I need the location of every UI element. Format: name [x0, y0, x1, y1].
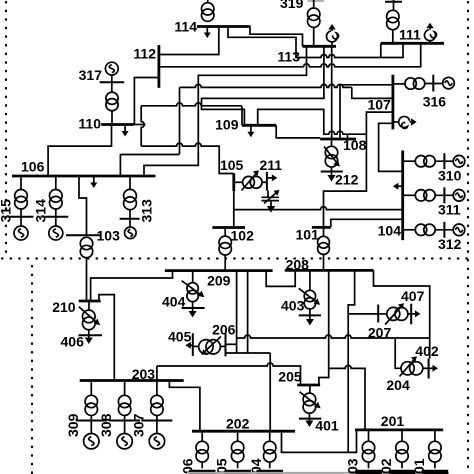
wire 209 drop V1 — [236, 270, 238, 353]
unit 302: transformer — [396, 430, 408, 468]
wire stub into bus 108 — [347, 134, 349, 139]
svg-text:315: 315 — [0, 199, 14, 223]
wire 109-108 — [276, 125, 320, 138]
svg-text:209: 209 — [207, 273, 231, 289]
svg-text:307: 307 — [130, 413, 146, 437]
bus 208 — [285, 269, 374, 272]
svg-text:319: 319 — [280, 0, 304, 11]
generator 317 — [105, 62, 118, 75]
svg-text:06: 06 — [180, 458, 196, 474]
svg-text:02: 02 — [378, 458, 394, 474]
bus tick 313 — [120, 218, 140, 220]
wire L3 (105 feeder, y87.4) — [180, 84, 352, 87]
bus tick 405 — [192, 333, 194, 356]
wire branch y106.3 to 109 — [141, 103, 242, 106]
generator 311 — [435, 190, 465, 202]
wire 109-108 second circuit — [258, 109, 367, 134]
tap arrow 204 — [400, 356, 417, 376]
wire 208-201 long with jog — [348, 270, 354, 452]
svg-text:317: 317 — [79, 67, 103, 83]
generator 307 — [149, 421, 164, 449]
tap arrow 212 — [324, 147, 340, 167]
unit 307: transformer — [151, 381, 163, 421]
svg-text:111: 111 — [399, 27, 421, 43]
wire L3 vertical to y146.3 — [179, 87, 181, 154]
generator 309 — [84, 421, 99, 449]
bus 209 — [165, 269, 273, 272]
wire 112-111 (long, with hops) — [159, 43, 421, 67]
bus tick 402 — [428, 359, 430, 379]
bus tick + load arrow 404 — [182, 302, 205, 318]
wire 206 horizontal y353 — [226, 352, 271, 354]
wire 113-106 via L2 — [144, 46, 307, 176]
wire 109 left end up — [241, 106, 243, 125]
svg-text:05: 05 — [213, 458, 229, 474]
unit 309: transformer — [85, 381, 97, 421]
svg-text:310: 310 — [438, 168, 462, 184]
flow arrow 407 — [411, 310, 420, 317]
bus bar 303 — [355, 470, 382, 474]
unit 310: transformer — [403, 156, 435, 167]
transformer 316 — [393, 78, 425, 89]
wire 114-113 circuit a — [250, 27, 303, 47]
wire y366 (203/205 link) with hop — [157, 363, 301, 385]
tap arrow 206 (head lower-left) — [201, 337, 221, 355]
transformer 207/407 — [378, 307, 411, 320]
svg-text:407: 407 — [401, 288, 425, 304]
bus tick 211 — [266, 172, 268, 191]
svg-text:404: 404 — [162, 294, 186, 310]
synchronous condenser at 113 — [326, 24, 338, 42]
wire 208-205 — [319, 270, 329, 385]
tap arrow 207 — [385, 303, 404, 324]
bus tick 315 — [9, 216, 34, 218]
svg-text:210: 210 — [52, 299, 76, 315]
unit 315: transformer — [15, 177, 28, 217]
svg-text:113: 113 — [277, 49, 300, 65]
dotted border left — [5, 2, 7, 258]
bus 102 — [212, 226, 245, 229]
wire 110-112 — [134, 78, 159, 125]
svg-text:206: 206 — [212, 322, 236, 338]
bus 114 — [197, 25, 251, 28]
wire y338 (206 to 402 area) with hops — [237, 335, 430, 338]
wire 105-102 vertical — [233, 191, 235, 228]
wire 205-201 — [329, 365, 365, 429]
svg-text:204: 204 — [386, 377, 410, 393]
svg-text:211: 211 — [260, 157, 283, 173]
unit 308: transformer — [118, 381, 130, 421]
wire 209 drop V2 — [247, 270, 249, 353]
svg-text:406: 406 — [61, 334, 85, 350]
bus tick + load arrow 401 — [299, 413, 321, 427]
svg-text:101: 101 — [296, 227, 320, 243]
svg-text:208: 208 — [286, 257, 310, 273]
load arrow bus 106 — [90, 177, 97, 188]
bus 201 — [355, 428, 443, 431]
svg-text:103: 103 — [97, 228, 121, 244]
svg-text:313: 313 — [139, 199, 155, 223]
bus 105 — [232, 173, 235, 191]
transformer 404 — [187, 270, 198, 301]
wire 206 up to y338 — [226, 343, 237, 345]
unit 311: transformer — [403, 190, 435, 201]
svg-text:107: 107 — [367, 97, 391, 113]
svg-text:114: 114 — [174, 19, 197, 35]
bus bar 306 — [189, 470, 216, 474]
svg-text:402: 402 — [415, 343, 439, 359]
transformer 319 with cut tick (grey, image edge) — [308, 0, 325, 46]
bus tick + load arrow 406 — [79, 330, 103, 344]
generator 315 — [14, 217, 28, 240]
variable capacitor at 211 — [262, 190, 280, 204]
transformer 211 (105 side) — [234, 176, 267, 188]
svg-text:108: 108 — [343, 137, 367, 153]
svg-text:316: 316 — [423, 94, 447, 110]
wire 210-203 — [99, 295, 114, 381]
bus tick + load arrow 212 — [321, 167, 343, 181]
svg-text:104: 104 — [378, 223, 402, 239]
unit 313: transformer — [124, 177, 137, 219]
generator 313 — [125, 219, 137, 239]
transformer 406 — [83, 301, 96, 330]
bus 106 — [12, 175, 156, 178]
dotted border horizontal separator — [2, 257, 472, 259]
load arrow bus 110 — [122, 126, 129, 137]
bus tick 407 — [410, 304, 412, 325]
svg-text:205: 205 — [278, 369, 302, 385]
tap arrow 404 — [182, 281, 205, 298]
svg-text:405: 405 — [168, 329, 192, 345]
wire 113-109 zigzag — [202, 46, 324, 124]
generator 308 — [117, 421, 132, 449]
svg-text:311: 311 — [438, 202, 461, 218]
bus 108 — [320, 138, 356, 141]
generator 314 — [49, 217, 63, 240]
transformer T111 with cut tick — [385, 0, 402, 43]
svg-text:109: 109 — [215, 117, 239, 133]
dotted border bottom-left vertical — [31, 266, 33, 473]
generator 316 — [425, 77, 455, 89]
svg-text:403: 403 — [281, 298, 305, 314]
bus tick 206 — [225, 333, 227, 356]
tap arrow 401 — [300, 392, 321, 409]
wire y154.9 — [120, 154, 179, 156]
load arrow bus 104 (left) — [393, 183, 403, 190]
bus 113 — [303, 45, 337, 48]
unit 314: transformer — [50, 177, 63, 217]
svg-text:401: 401 — [315, 418, 339, 434]
generator 312 — [435, 224, 465, 236]
svg-text:01: 01 — [411, 458, 427, 474]
bus bar 302 — [389, 470, 416, 474]
svg-text:105: 105 — [220, 157, 244, 173]
unit 305: transformer — [231, 431, 243, 468]
transformer 204/402 — [401, 362, 429, 375]
bus bar 301 — [422, 470, 449, 474]
transformer 102 — [219, 228, 231, 271]
bus bar 305 — [224, 470, 251, 474]
bus 210 — [79, 300, 101, 303]
bus tick 309 — [76, 420, 107, 422]
load arrow bus 114 — [204, 27, 211, 38]
wire 114-113 circuit b — [228, 27, 296, 47]
wire 105-107 (L3 extension) — [352, 87, 393, 98]
bus 111 — [381, 42, 444, 45]
bus tick + load arrow 403 — [299, 309, 321, 326]
bus tick 308 — [109, 420, 140, 422]
svg-text:212: 212 — [335, 172, 359, 188]
svg-text:312: 312 — [438, 236, 462, 252]
transformer 103 — [80, 237, 92, 301]
synchronous condenser at 111 — [424, 23, 436, 41]
wire 209-210 — [91, 271, 173, 301]
synchronous condenser at 107 — [399, 116, 417, 128]
wire 114-112 — [159, 27, 219, 55]
bus 112 — [157, 45, 160, 88]
grey cut line at bottom edge — [187, 472, 449, 474]
wire 106-103 — [79, 176, 87, 235]
unit 306: transformer — [196, 431, 208, 468]
bus tick 312 — [443, 222, 445, 238]
svg-text:202: 202 — [226, 416, 250, 432]
bus 205 — [297, 384, 320, 387]
bus 110 — [101, 123, 134, 126]
wire 107-108 circuit 1 — [340, 85, 393, 139]
svg-text:203: 203 — [132, 366, 156, 382]
transformer 101 — [318, 227, 330, 270]
unit 312: transformer — [403, 224, 435, 235]
wire 208 right to 402 area — [374, 270, 430, 358]
load arrow below capacitor — [267, 201, 275, 213]
bus 104 trunk — [401, 151, 404, 241]
tap arrow 211 — [242, 170, 259, 190]
svg-text:04: 04 — [248, 458, 264, 474]
svg-text:102: 102 — [231, 228, 255, 244]
flow arrow 405 (left) — [185, 342, 193, 349]
wire 107-104 — [379, 123, 403, 171]
transformer 401 — [303, 385, 316, 413]
bus 203 — [80, 379, 184, 382]
bus bar 304 — [257, 470, 284, 474]
bus tick 207 left — [377, 305, 379, 323]
wire branch y144.8 — [141, 106, 144, 146]
transformer 403 — [304, 270, 315, 309]
tap arrow 406 — [79, 307, 101, 326]
wire 402 feeder — [395, 338, 400, 368]
wire 203-202 — [169, 381, 200, 432]
bus 202 — [192, 430, 295, 433]
bus 109 — [242, 124, 276, 127]
bus tick 314 — [43, 216, 68, 218]
generator 310 — [435, 155, 465, 167]
svg-text:308: 308 — [98, 413, 114, 437]
load arrow bus 109 — [247, 126, 254, 137]
bus tick 316 — [432, 75, 434, 92]
transformer 317-110 — [106, 75, 118, 125]
unit 301: transformer — [429, 430, 441, 468]
wire 202-201 — [282, 430, 357, 453]
svg-text:314: 314 — [32, 199, 48, 223]
wire 108-111 via y57.4 — [331, 46, 333, 139]
bus tick 310 — [443, 153, 445, 169]
wire 101-104 — [331, 219, 403, 227]
unit 304: transformer — [264, 431, 276, 468]
wire 107-101 — [324, 112, 393, 227]
svg-text:03: 03 — [345, 458, 361, 474]
bus 107 — [391, 75, 394, 130]
bus tick 103 — [66, 234, 101, 236]
bus tick 307 — [141, 420, 172, 422]
transformer T114 — [202, 0, 214, 21]
wire 102-104 (long y209.6 with hop) — [234, 207, 403, 210]
svg-text:309: 309 — [65, 413, 81, 437]
unit 303: transformer — [362, 430, 374, 468]
bus 101 — [312, 226, 331, 229]
wire 206-202 vertical — [269, 353, 271, 431]
wire 110-106 — [48, 125, 111, 177]
svg-text:110: 110 — [78, 116, 101, 132]
svg-text:112: 112 — [133, 46, 156, 62]
wire U-jog 209-208 — [266, 270, 295, 286]
transformer 206/405 — [193, 340, 226, 354]
flow arrow 211 — [267, 174, 277, 181]
transformer 212 — [325, 139, 337, 167]
dotted border right — [467, 2, 469, 473]
tap arrow 403 — [299, 288, 321, 305]
svg-text:106: 106 — [21, 159, 45, 175]
wire 156.9 drop into 203 — [156, 366, 158, 381]
bus tick 317 — [100, 81, 125, 83]
svg-text:201: 201 — [381, 413, 405, 429]
bus tick 311 — [443, 187, 445, 203]
flow arrow 402 — [429, 365, 438, 372]
wire 207 feeder — [348, 313, 378, 315]
